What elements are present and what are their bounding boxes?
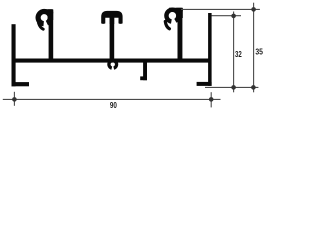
svg-text:35: 35 (255, 47, 263, 57)
extension line from right hook top to 35 dimension (181, 8, 260, 10)
left snap hook stem (49, 12, 54, 59)
profile right wall (208, 13, 212, 86)
right snap hook stem (178, 11, 183, 59)
profile left bottom foot lip (12, 82, 30, 86)
small stub below web (143, 60, 147, 80)
terminator dot 35 top (251, 7, 256, 12)
dimension line 90 horizontal (3, 98, 221, 100)
right tick of 90 dimension (210, 92, 212, 107)
profile left wall (12, 24, 16, 86)
right snap hook top right corner (176, 8, 183, 18)
dimension line 35 vertical (253, 3, 255, 93)
dimension line 32 vertical (233, 12, 235, 93)
profile main horizontal web (12, 59, 212, 63)
middle clip stem (110, 17, 115, 59)
left snap hook lower leg tip (39, 23, 44, 29)
terminator dot 32 bottom (231, 85, 236, 90)
svg-text:32: 32 (235, 49, 242, 59)
left snap hook top right corner (48, 9, 54, 20)
right snap hook head (open ring) (164, 8, 180, 24)
svg-text:90: 90 (110, 101, 117, 110)
left snap hook head (open ring) (35, 9, 52, 26)
extension line from right wall top to 32 dimension (212, 15, 242, 17)
terminator dot 90 left (12, 97, 17, 102)
right snap hook flat top (169, 8, 183, 11)
left tick of 90 dimension (13, 92, 15, 106)
terminator dot 35 bottom (251, 85, 256, 90)
profile right bottom foot lip (197, 82, 212, 86)
small stub lip (140, 76, 147, 80)
left snap hook flat top (43, 9, 53, 13)
middle glazing clip head with prongs (101, 11, 122, 24)
bottom extension line from right foot (205, 86, 258, 88)
right snap hook lower leg tip (165, 22, 169, 29)
terminator dot 32 top (231, 14, 236, 19)
middle horseshoe clip below web (107, 59, 118, 70)
terminator dot 90 right (209, 97, 214, 102)
